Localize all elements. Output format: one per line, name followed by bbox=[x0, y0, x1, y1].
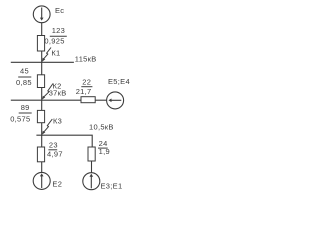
wire bbox=[41, 88, 43, 111]
svg-text:89: 89 bbox=[21, 103, 30, 112]
bus 115kV bbox=[11, 61, 74, 63]
value label 23/4,97 bbox=[47, 140, 63, 158]
resistor X6 bbox=[88, 147, 95, 161]
wire bbox=[41, 123, 43, 147]
value label 45/0,85 bbox=[16, 67, 32, 87]
svg-text:123: 123 bbox=[52, 26, 65, 35]
resistor X1 bbox=[37, 36, 44, 52]
svg-text:К1: К1 bbox=[51, 48, 60, 57]
bus / wire to E5,E4 bbox=[11, 99, 81, 101]
svg-text:Е5;Е4: Е5;Е4 bbox=[108, 77, 130, 86]
svg-text:23: 23 bbox=[49, 140, 58, 149]
svg-text:21,7: 21,7 bbox=[76, 87, 92, 96]
wire bbox=[91, 161, 93, 173]
svg-text:115кВ: 115кВ bbox=[75, 55, 97, 64]
source E5,E4 bbox=[107, 92, 124, 109]
value label 89/0,575 bbox=[10, 103, 30, 124]
svg-text:0,575: 0,575 bbox=[10, 114, 30, 123]
svg-text:4,97: 4,97 bbox=[47, 149, 63, 158]
svg-text:Ес: Ес bbox=[55, 6, 64, 15]
source E3,E1 bbox=[83, 173, 100, 190]
fault marker K1 bbox=[42, 48, 51, 62]
value label 123/0,925 bbox=[44, 26, 65, 45]
source Ec bbox=[33, 6, 50, 23]
fault marker K3 bbox=[42, 119, 52, 135]
resistor X2 bbox=[37, 75, 44, 88]
svg-text:0,85: 0,85 bbox=[16, 78, 32, 87]
svg-text:Е2: Е2 bbox=[52, 179, 62, 188]
wire bbox=[41, 51, 43, 75]
wire bbox=[95, 99, 106, 101]
svg-text:0,925: 0,925 bbox=[44, 36, 64, 45]
svg-text:37кВ: 37кВ bbox=[49, 89, 67, 98]
value label 24/1,9 bbox=[99, 139, 110, 156]
resistor X5 (horizontal) bbox=[81, 97, 95, 103]
value label 22/21,7 bbox=[76, 77, 92, 95]
bus 10,5kV: horizontal + corner down bbox=[36, 135, 92, 147]
wire bbox=[41, 162, 43, 173]
svg-text:22: 22 bbox=[82, 77, 91, 86]
svg-text:К3: К3 bbox=[53, 116, 62, 125]
svg-text:Е3;Е1: Е3;Е1 bbox=[101, 181, 123, 190]
resistor X3 bbox=[37, 110, 44, 122]
source E2 bbox=[33, 172, 50, 189]
svg-text:45: 45 bbox=[20, 67, 29, 76]
svg-text:10,5кВ: 10,5кВ bbox=[89, 123, 114, 132]
fault marker K2 bbox=[42, 84, 53, 100]
resistor X4 bbox=[37, 147, 44, 162]
wire bbox=[41, 23, 43, 36]
